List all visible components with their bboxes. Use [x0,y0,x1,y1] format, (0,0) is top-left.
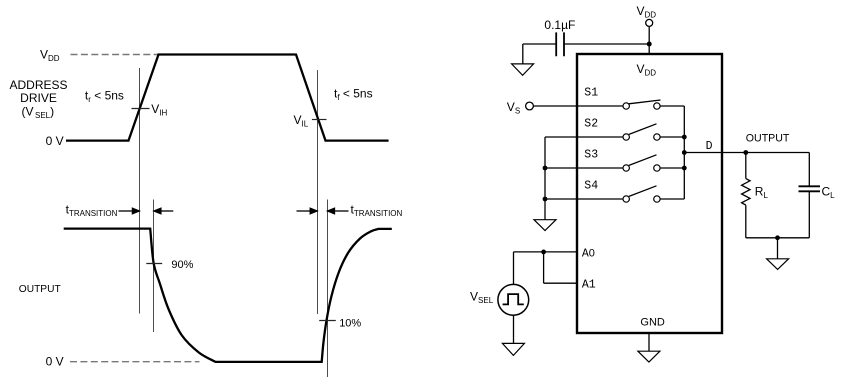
svg-text:A0: A0 [582,247,595,260]
svg-text:A1: A1 [582,279,596,292]
svg-text:OUTPUT: OUTPUT [746,133,790,145]
svg-text:S4: S4 [584,179,598,192]
svg-text:90%: 90% [171,259,193,271]
svg-text:0 V: 0 V [46,134,64,148]
svg-text:10%: 10% [339,317,361,329]
svg-text:S1: S1 [584,86,598,99]
svg-text:tf < 5ns: tf < 5ns [334,87,373,103]
svg-text:S3: S3 [584,148,598,161]
svg-text:D: D [706,140,713,153]
svg-text:tr < 5ns: tr < 5ns [85,89,124,105]
svg-text:DRIVE: DRIVE [20,91,57,105]
svg-text:ADDRESS: ADDRESS [9,78,67,92]
svg-text:0.1µF: 0.1µF [544,18,575,32]
svg-text:OUTPUT: OUTPUT [19,284,61,295]
svg-text:S2: S2 [584,117,598,130]
svg-text:0 V: 0 V [46,355,64,369]
svg-text:GND: GND [640,317,665,329]
